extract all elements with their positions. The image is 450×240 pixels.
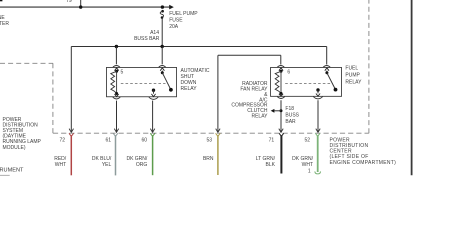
label power distribution system bbox=[3, 117, 42, 151]
switch relay1 bbox=[151, 71, 172, 97]
svg-text:79: 79 bbox=[66, 0, 72, 4]
svg-text:BUSS: BUSS bbox=[285, 112, 299, 118]
svg-text:F18: F18 bbox=[285, 106, 294, 112]
wire 61 DK BLU/YEL bbox=[113, 133, 118, 175]
arrow down wire 60 bbox=[150, 129, 154, 133]
dashed link relay2 bbox=[285, 82, 330, 84]
dashed boundary left bbox=[52, 63, 54, 133]
svg-text:1: 1 bbox=[308, 168, 311, 174]
wire bus2 bbox=[71, 46, 326, 48]
fragment line bottom-left bbox=[0, 174, 10, 176]
svg-text:A14: A14 bbox=[150, 30, 159, 36]
label radiator fan relay bbox=[231, 81, 268, 119]
label LT GRN/BLK bbox=[256, 156, 276, 168]
label fuel pump relay bbox=[345, 66, 362, 86]
wire relay1 coil bottom down bbox=[116, 101, 118, 132]
wire fuse to bus2 bbox=[161, 18, 163, 47]
svg-text:FUSE: FUSE bbox=[169, 18, 183, 24]
node F18 junction dot bbox=[280, 109, 283, 112]
svg-text:52: 52 bbox=[304, 137, 310, 143]
svg-text:RELAY: RELAY bbox=[181, 86, 198, 92]
arrow left F18 bbox=[271, 109, 275, 113]
svg-text:5: 5 bbox=[121, 70, 124, 76]
wire 72 RED/WHT bbox=[69, 133, 74, 175]
dashed link relay1 bbox=[121, 83, 166, 85]
dashed boundary bottom bbox=[53, 132, 369, 134]
wire drop to relay1 switch bbox=[161, 47, 163, 65]
svg-text:NE: NE bbox=[0, 15, 5, 21]
node junction dot bus2-1 bbox=[115, 45, 118, 48]
relay K1 box (automatic shut down relay) bbox=[106, 67, 176, 96]
terminal cup relay1 switch top bbox=[159, 66, 166, 68]
terminal cup relay1 coil bottom bbox=[113, 97, 121, 99]
label A14 BUSS BAR bbox=[134, 30, 160, 42]
svg-text:MODULE): MODULE) bbox=[3, 145, 26, 151]
svg-text:FUEL: FUEL bbox=[345, 66, 358, 72]
wire stub up bbox=[80, 0, 82, 7]
svg-text:6: 6 bbox=[287, 70, 290, 76]
wire 53 BRN bbox=[216, 133, 221, 175]
svg-text:RELAY: RELAY bbox=[251, 114, 268, 120]
label power distribution center bbox=[330, 137, 397, 165]
wire bus3 drop to relay2 coil bbox=[280, 55, 282, 64]
terminal cup relay1 coil top bbox=[113, 66, 120, 68]
arrow down wire 53 bbox=[216, 129, 220, 133]
svg-text:ORG: ORG bbox=[136, 162, 148, 168]
svg-text:FUEL PUMP: FUEL PUMP bbox=[169, 11, 198, 17]
corner artifact top-left bbox=[0, 0, 2, 1]
svg-text:YEL: YEL bbox=[102, 162, 112, 168]
wire F18 branch bbox=[274, 110, 281, 112]
svg-text:72: 72 bbox=[59, 137, 65, 143]
arrow down wire 72 bbox=[69, 129, 73, 133]
label F18 BUSS BAR bbox=[285, 106, 299, 125]
label DK BLU/YEL bbox=[92, 156, 112, 168]
label DK GRN/ORG bbox=[126, 156, 147, 168]
svg-text:TER: TER bbox=[0, 21, 9, 27]
wire drop to relay2 switch bbox=[326, 47, 328, 65]
svg-text:BLK: BLK bbox=[266, 162, 276, 168]
svg-text:RUMENT: RUMENT bbox=[0, 167, 24, 173]
svg-text:PUMP: PUMP bbox=[345, 73, 360, 79]
relay K2 box (radiator fan / fuel pump relay) bbox=[271, 67, 342, 96]
fuse FUEL PUMP FUSE 20A bbox=[160, 10, 164, 19]
node junction dot fuse bbox=[161, 5, 164, 8]
coil relay2 bbox=[275, 70, 282, 95]
wire 52 DK GRN/WHT bbox=[315, 133, 321, 174]
arrow right on top bus bbox=[169, 5, 174, 10]
node junction dot left bbox=[79, 5, 82, 8]
wire relay2 switch bottom down bbox=[317, 100, 319, 132]
wire 60 DK GRN/ORG bbox=[150, 133, 155, 175]
terminal pin relay2 coil top bbox=[279, 68, 283, 71]
svg-text:BAR: BAR bbox=[285, 119, 296, 125]
terminal cup relay2 switch top bbox=[323, 66, 330, 68]
svg-text:BUSS BAR: BUSS BAR bbox=[134, 36, 160, 42]
wire left drop 72 bbox=[70, 47, 72, 132]
node junction dot bus2-2 bbox=[161, 45, 164, 48]
svg-text:AUTOMATIC: AUTOMATIC bbox=[181, 68, 210, 74]
fuse label bbox=[169, 11, 198, 30]
svg-text:WHT: WHT bbox=[55, 162, 66, 168]
svg-text:60: 60 bbox=[141, 137, 147, 143]
terminal pin relay2 coil bottom bbox=[279, 94, 283, 96]
dashed boundary top-left bbox=[0, 62, 53, 64]
dashed boundary right bbox=[368, 0, 370, 133]
arrow down wire 61 bbox=[114, 129, 118, 133]
wire bus3 left drop 53 bbox=[217, 55, 219, 132]
terminal pin relay1 coil bottom bbox=[115, 94, 119, 97]
wire top bus bbox=[0, 6, 170, 8]
terminal pin relay1 switch top bbox=[160, 68, 164, 71]
label RED/WHT bbox=[54, 156, 67, 168]
label automatic shut down relay bbox=[181, 68, 210, 92]
wire bus3 bbox=[218, 54, 281, 56]
terminal cup relay1 switch bottom bbox=[149, 97, 158, 99]
svg-text:61: 61 bbox=[106, 137, 112, 143]
svg-text:BRN: BRN bbox=[203, 156, 214, 162]
terminal cup relay2 coil bottom bbox=[277, 97, 285, 99]
label DK GRN/WHT bbox=[292, 156, 313, 168]
switch relay2 bbox=[316, 71, 338, 97]
label fragment top-left bbox=[0, 15, 9, 27]
terminal pin relay2 switch top bbox=[325, 68, 329, 71]
svg-text:RELAY: RELAY bbox=[345, 80, 362, 86]
svg-text:71: 71 bbox=[269, 137, 275, 143]
svg-text:20A: 20A bbox=[169, 24, 179, 30]
svg-text:53: 53 bbox=[206, 137, 212, 143]
svg-text:ENGINE COMPARTMENT): ENGINE COMPARTMENT) bbox=[330, 160, 397, 166]
wire relay1 switch bottom down bbox=[152, 101, 154, 132]
svg-text:SHUT: SHUT bbox=[181, 74, 195, 80]
wire drop to relay1 coil bbox=[115, 47, 117, 65]
page border right bbox=[411, 0, 413, 175]
arrow down wire 52 bbox=[316, 129, 320, 133]
svg-text:WHT: WHT bbox=[302, 162, 313, 168]
terminal cup relay2 switch bottom bbox=[313, 97, 322, 99]
arrow down wire 71 bbox=[279, 129, 283, 133]
wire relay2 coil bottom down bbox=[280, 100, 282, 132]
terminal pin relay1 coil top bbox=[115, 68, 119, 71]
coil relay1 bbox=[111, 70, 118, 95]
svg-text:DOWN: DOWN bbox=[181, 80, 197, 86]
terminal cup relay2 coil top bbox=[277, 66, 284, 68]
wire 71 LT GRN/BLK bbox=[279, 133, 284, 173]
